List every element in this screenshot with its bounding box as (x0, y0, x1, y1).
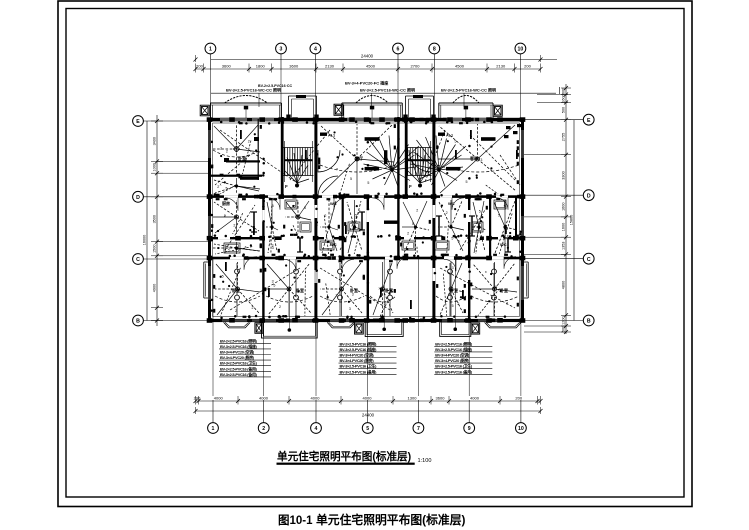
svg-text:3: 3 (280, 47, 283, 53)
svg-text:3: 3 (384, 302, 386, 306)
svg-text:3: 3 (349, 307, 351, 311)
svg-text:WC: WC (330, 242, 337, 247)
svg-text:4000: 4000 (363, 396, 373, 401)
svg-text:5: 5 (304, 206, 306, 210)
svg-text:5: 5 (458, 240, 460, 244)
svg-text:2130: 2130 (496, 64, 506, 69)
svg-text:2: 2 (407, 231, 409, 235)
svg-text:WC: WC (500, 242, 507, 247)
svg-text:2: 2 (279, 305, 281, 309)
svg-text:3: 3 (480, 158, 482, 162)
svg-text:F: F (409, 184, 412, 189)
svg-text:5: 5 (479, 210, 481, 214)
svg-text:4000: 4000 (311, 396, 321, 401)
svg-text:BV-3×2.5-PVC16 (插座): BV-3×2.5-PVC16 (插座) (435, 347, 473, 352)
svg-text:BV-3×4-PVC20 (空调): BV-3×4-PVC20 (空调) (340, 353, 375, 358)
svg-text:BV-3×2.5-PVC16 (插座): BV-3×2.5-PVC16 (插座) (340, 347, 378, 352)
svg-text:x: x (220, 182, 222, 186)
svg-text:1: 1 (209, 47, 212, 53)
svg-text:5: 5 (273, 284, 275, 288)
svg-text:3600: 3600 (436, 396, 446, 401)
svg-text:1800: 1800 (256, 64, 266, 69)
svg-text:10: 10 (518, 426, 524, 432)
svg-text:200: 200 (524, 64, 531, 69)
svg-text:2: 2 (220, 146, 222, 150)
svg-text:D: D (587, 193, 591, 199)
svg-text:客厅: 客厅 (354, 155, 363, 161)
svg-text:卧室: 卧室 (450, 287, 458, 293)
svg-text:2: 2 (446, 211, 448, 215)
svg-text:4900: 4900 (153, 284, 157, 292)
svg-text:x: x (476, 214, 478, 218)
svg-text:6: 6 (397, 47, 400, 53)
svg-text:2: 2 (233, 224, 235, 228)
svg-text:2700: 2700 (411, 64, 421, 69)
svg-text:5: 5 (412, 222, 414, 226)
svg-text:2130: 2130 (325, 64, 335, 69)
svg-text:1353: 1353 (562, 242, 566, 250)
svg-text:卧室: 卧室 (232, 287, 240, 293)
svg-text:3500: 3500 (153, 215, 157, 223)
svg-text:2: 2 (457, 302, 459, 306)
svg-text:2: 2 (248, 139, 250, 143)
svg-text:F: F (285, 184, 288, 189)
svg-text:4500: 4500 (366, 64, 376, 69)
svg-text:BV-2×2.5-PVC16 (备用): BV-2×2.5-PVC16 (备用) (220, 366, 258, 371)
svg-text:5: 5 (452, 304, 454, 308)
svg-text:BV-3×4-PVC20 (空调): BV-3×4-PVC20 (空调) (220, 350, 255, 355)
svg-text:B: B (136, 319, 140, 325)
svg-text:1000: 1000 (153, 163, 157, 171)
svg-text:BV-3×4-PVC20·FC 插座: BV-3×4-PVC20·FC 插座 (345, 80, 388, 86)
svg-text:1500: 1500 (153, 244, 157, 252)
svg-text:5: 5 (295, 215, 297, 219)
svg-text:BV-3×2.5-PVC16·WC·CC 照明: BV-3×2.5-PVC16·WC·CC 照明 (360, 87, 415, 93)
svg-text:x: x (507, 234, 509, 238)
svg-text:WC: WC (330, 201, 337, 206)
svg-text:1:100: 1:100 (418, 458, 432, 464)
svg-text:2: 2 (224, 214, 226, 218)
svg-text:厨房: 厨房 (222, 200, 230, 206)
svg-text:x: x (330, 213, 332, 217)
svg-text:卧室: 卧室 (296, 287, 304, 293)
svg-text:1600: 1600 (562, 223, 566, 231)
svg-text:卧室: 卧室 (500, 287, 508, 293)
svg-text:BV-3×4-PVC20 (空调): BV-3×4-PVC20 (空调) (435, 353, 470, 358)
svg-text:BV-3×2.5-PVC16 (插座): BV-3×2.5-PVC16 (插座) (220, 344, 258, 349)
svg-text:3300: 3300 (562, 171, 566, 179)
svg-text:5: 5 (272, 204, 274, 208)
svg-text:D: D (136, 195, 140, 201)
svg-text:5: 5 (366, 426, 369, 432)
svg-text:卧室: 卧室 (385, 287, 393, 293)
svg-text:200: 200 (515, 396, 522, 401)
svg-text:BV-2×2.5-PVC16·CC: BV-2×2.5-PVC16·CC (258, 84, 292, 88)
svg-text:5: 5 (495, 285, 497, 289)
svg-text:x: x (245, 245, 247, 249)
svg-text:5: 5 (367, 181, 369, 185)
svg-text:WC: WC (448, 201, 455, 206)
svg-text:B: B (587, 319, 591, 325)
svg-text:BV-3×4-PVC20 (厨房): BV-3×4-PVC20 (厨房) (340, 358, 375, 363)
svg-text:15860: 15860 (570, 215, 574, 226)
svg-text:500: 500 (562, 326, 566, 332)
svg-text:5: 5 (498, 213, 500, 217)
svg-text:200: 200 (194, 396, 201, 401)
svg-text:8: 8 (433, 47, 436, 53)
svg-text:BV-2×2.5-PVC16 (照明): BV-2×2.5-PVC16 (照明) (435, 341, 473, 346)
svg-text:E: E (587, 118, 591, 124)
svg-text:2: 2 (226, 150, 228, 154)
svg-text:24400: 24400 (362, 413, 375, 418)
svg-text:9: 9 (468, 426, 471, 432)
svg-text:24400: 24400 (361, 54, 374, 59)
svg-text:4000: 4000 (214, 396, 224, 401)
svg-text:4000: 4000 (470, 396, 480, 401)
svg-text:1300: 1300 (408, 396, 418, 401)
svg-text:BV-3×2.5-PVC16·WC·CC 照明: BV-3×2.5-PVC16·WC·CC 照明 (441, 87, 496, 93)
svg-text:3600: 3600 (289, 64, 299, 69)
svg-text:BV-3×2.5-PVC16 (备用): BV-3×2.5-PVC16 (备用) (340, 369, 378, 374)
svg-text:5: 5 (225, 186, 227, 190)
svg-text:卧室: 卧室 (350, 287, 358, 293)
svg-text:BV-2×2.5-PVC16 (照明): BV-2×2.5-PVC16 (照明) (340, 341, 378, 346)
svg-text:BV-3×2.5-PVC16 (卫生): BV-3×2.5-PVC16 (卫生) (340, 364, 378, 369)
svg-text:图10-1: 图10-1 (278, 513, 313, 527)
svg-text:500: 500 (562, 107, 566, 113)
svg-text:4500: 4500 (455, 64, 465, 69)
svg-text:10: 10 (518, 47, 524, 53)
svg-text:BV-2×2.5-PVC16 (照明): BV-2×2.5-PVC16 (照明) (220, 338, 258, 343)
svg-text:客厅: 客厅 (469, 155, 478, 161)
svg-text:4: 4 (314, 47, 317, 53)
svg-text:BV-3×2.5-PVC16 (备用): BV-3×2.5-PVC16 (备用) (435, 369, 473, 374)
svg-text:C: C (136, 257, 140, 263)
svg-text:4000: 4000 (259, 396, 269, 401)
svg-text:2755: 2755 (562, 133, 566, 141)
svg-text:2: 2 (416, 208, 418, 212)
svg-text:3600: 3600 (222, 64, 232, 69)
svg-text:3: 3 (272, 280, 274, 284)
svg-text:5: 5 (455, 140, 457, 144)
svg-text:BV-3×4-PVC20 (厨房): BV-3×4-PVC20 (厨房) (435, 358, 470, 363)
svg-text:1600: 1600 (562, 94, 566, 102)
svg-text:3400: 3400 (153, 137, 157, 145)
svg-text:600: 600 (562, 88, 566, 94)
svg-text:5: 5 (222, 274, 224, 278)
svg-text:3: 3 (478, 238, 480, 242)
svg-text:200: 200 (196, 64, 203, 69)
svg-text:5: 5 (350, 177, 352, 181)
svg-text:单元住宅照明平布图(标准层): 单元住宅照明平布图(标准层) (277, 450, 411, 463)
svg-text:1200: 1200 (562, 316, 566, 324)
svg-text:1600: 1600 (562, 202, 566, 210)
svg-text:2: 2 (252, 306, 254, 310)
svg-text:4800: 4800 (562, 281, 566, 289)
svg-text:5: 5 (465, 180, 467, 184)
svg-text:3: 3 (272, 246, 274, 250)
svg-text:BV-3×2.5-PVC16 (备用): BV-3×2.5-PVC16 (备用) (220, 372, 258, 377)
svg-text:2: 2 (228, 247, 230, 251)
svg-text:7: 7 (417, 426, 420, 432)
svg-text:3: 3 (236, 247, 238, 251)
svg-text:1: 1 (212, 426, 215, 432)
svg-text:x: x (336, 167, 338, 171)
svg-text:单元住宅照明平布图(标准层): 单元住宅照明平布图(标准层) (316, 513, 465, 527)
svg-text:BV-3×2.5-PVC16 (卫生): BV-3×2.5-PVC16 (卫生) (220, 361, 258, 366)
svg-text:卧室: 卧室 (238, 155, 246, 161)
svg-text:2: 2 (324, 214, 326, 218)
svg-text:BV-3×4-PVC20 (厨房): BV-3×4-PVC20 (厨房) (220, 355, 255, 360)
svg-text:x: x (485, 270, 487, 274)
svg-text:E: E (136, 119, 140, 125)
svg-text:4: 4 (315, 426, 318, 432)
svg-text:2: 2 (262, 426, 265, 432)
svg-text:16000: 16000 (143, 235, 147, 246)
svg-text:C: C (587, 257, 591, 263)
svg-text:BV-3×2.5-PVC16 (卫生): BV-3×2.5-PVC16 (卫生) (435, 364, 473, 369)
